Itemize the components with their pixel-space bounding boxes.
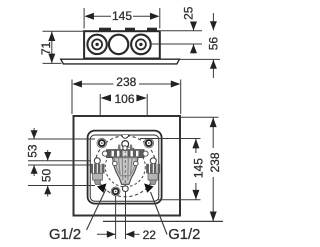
dimension 71: dimension line with arrows — [48, 31, 55, 63]
left leader arrow (G1/2) — [97, 183, 107, 193]
dimension 50: line segments and outside arrows — [44, 150, 51, 197]
svg-text:53: 53 — [26, 144, 40, 158]
dimension 71: reference lines — [43, 31, 85, 63]
top notch on body edge — [122, 135, 129, 138]
bottom reference edge line below square — [103, 220, 223, 222]
left leader line — [87, 189, 107, 230]
right leader arrow (G1/2) — [144, 183, 154, 193]
dimension 238 horizontal: extension lines — [72, 80, 181, 115]
bump 3 on box top — [147, 28, 157, 32]
right leader line — [151, 192, 168, 235]
right fitting circle — [150, 158, 156, 164]
svg-text:G1/2: G1/2 — [49, 227, 81, 243]
svg-text:106: 106 — [114, 92, 134, 106]
dimension 238 horizontal: dimension line with arrows — [72, 81, 180, 88]
left fitting circle — [94, 158, 100, 164]
svg-text:G1/2: G1/2 — [168, 227, 200, 243]
dimension 145 top: extension lines — [84, 8, 160, 29]
dimension 25: dimension line segments with outside arrows — [190, 22, 197, 54]
dimension 145 vertical: dimension line with arrows — [192, 139, 199, 200]
dimension 53: line segments and outside arrows — [31, 128, 38, 176]
posts beside top circle — [118, 145, 120, 150]
goblet stem circle — [122, 186, 128, 192]
left port (double ring) — [87, 35, 106, 54]
svg-text:56: 56 — [207, 37, 221, 51]
dimension 53/50: reference lines left — [28, 139, 95, 186]
dimension 238 vertical: reference lines — [181, 116, 219, 118]
middle port (single ring) — [109, 35, 128, 54]
dimension 56: reference line bottom — [180, 58, 220, 60]
dimension 145 vertical: text — [191, 153, 205, 183]
dimension 238 vertical: text — [208, 148, 222, 177]
bar end circle right — [143, 151, 148, 156]
right port (double ring) — [131, 35, 151, 55]
outer dashed circle — [95, 136, 156, 197]
inner body rounded square outer edge — [88, 131, 162, 204]
valve box body (side view) — [84, 31, 160, 58]
svg-text:71: 71 — [39, 42, 53, 56]
dimension 56: dimension line segments with outside arrows — [210, 13, 217, 78]
bump 1 on box top — [99, 28, 111, 32]
left fitting body — [91, 164, 105, 185]
bottom service screw — [111, 187, 120, 196]
cartridge top bar — [107, 150, 145, 158]
inner body face line — [90, 135, 159, 201]
dimension 22: extension lines — [116, 192, 126, 240]
screw top-left — [97, 138, 107, 148]
svg-text:145: 145 — [191, 158, 205, 178]
goblet centerline dashed — [124, 150, 126, 187]
dimension 25: reference lines — [151, 31, 203, 44]
cartridge goblet body — [113, 158, 138, 185]
screw top-right — [144, 138, 154, 148]
top small circle — [122, 141, 129, 148]
bump 2 on box top — [125, 28, 135, 32]
svg-text:25: 25 — [182, 6, 196, 20]
right fitting body — [146, 164, 160, 185]
svg-text:22: 22 — [143, 228, 157, 242]
dimension 106: extension lines — [100, 94, 147, 138]
dimension 22: dimension line with outside arrows — [97, 231, 140, 238]
svg-text:238: 238 — [208, 152, 222, 172]
svg-text:238: 238 — [116, 75, 136, 89]
svg-text:145: 145 — [112, 9, 132, 23]
dimension 145 vertical: reference lines — [140, 139, 201, 200]
bar end circle left — [102, 151, 107, 156]
goblet inner outline — [114, 158, 136, 176]
dimension 238 vertical: dimension line with arrows — [210, 117, 217, 221]
dimension 106: dimension line with arrows — [101, 95, 147, 102]
escutcheon outer square — [74, 116, 181, 216]
goblet inner shading strokes — [119, 158, 133, 180]
dimension 145 top: dimension line with arrows — [84, 13, 159, 20]
inner dashed circle — [105, 147, 145, 187]
small circle above bar — [123, 146, 127, 150]
svg-text:50: 50 — [40, 169, 54, 183]
mounting plate (side view) — [61, 59, 180, 64]
goblet side screws — [113, 161, 118, 166]
